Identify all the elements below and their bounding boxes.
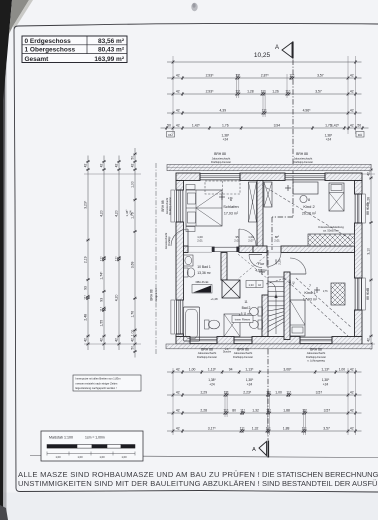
svg-text:17,93 m²: 17,93 m² [303,298,318,302]
footer text right [262,470,378,488]
page frame top edge [14,23,378,30]
section marker A top [275,42,293,59]
svg-text:Kind 2: Kind 2 [303,204,315,209]
svg-text:+24: +24 [247,383,253,387]
svg-text:3,23⁵: 3,23⁵ [84,200,88,209]
room label Kind 1 [303,284,318,302]
svg-text:42: 42 [131,164,135,168]
svg-text:1,28: 1,28 [247,89,254,93]
svg-text:6: 6 [230,198,232,202]
outer wall right (with window openings) [355,181,363,337]
section marker A bottom [252,441,268,458]
WC mid Bad 1 [205,320,220,329]
svg-text:BRH 88: BRH 88 [296,152,308,156]
svg-text:50: 50 [131,156,135,160]
svg-text:2,07: 2,07 [248,239,254,243]
window sill labels BRH left wall [150,197,172,302]
svg-text:4,96⁵: 4,96⁵ [303,108,312,112]
roof overhang dash-dot line left [155,163,157,355]
svg-text:Innenputze mit allen Breiten v: Innenputze mit allen Breiten von 1,83m [76,377,121,381]
svg-text:42: 42 [176,123,180,127]
desk and chair in Kind 2 [293,182,318,203]
svg-text:83,56 m²: 83,56 m² [98,38,125,45]
overall width dimension 10,25 [167,52,362,64]
door Kind 1 [290,258,306,274]
svg-text:50: 50 [131,346,135,350]
svg-text:3,57: 3,57 [316,390,323,394]
svg-text:1,38⁵: 1,38⁵ [322,378,330,382]
svg-text:Anlage in EU: Anlage in EU [155,288,158,302]
svg-text:1,32: 1,32 [252,408,259,412]
window sill labels BRH right wall [366,203,370,300]
svg-text:Eigenleistung nachgeputzt werd: Eigenleistung nachgeputzt werden ! [76,386,117,390]
svg-text:1,00: 1,00 [189,367,196,371]
svg-text:Kniestockverkleidung: Kniestockverkleidung [318,225,344,229]
svg-text:163,99 m²: 163,99 m² [94,56,124,63]
svg-text:Jalousieschacht: Jalousieschacht [212,157,231,161]
window bottom wall right [300,337,332,345]
door Bad 2 from Flur [249,255,262,268]
svg-text:2,01: 2,01 [234,239,240,243]
roof slope dashed lines crossing in Flur [238,254,268,279]
svg-text:11⁵: 11⁵ [286,390,292,394]
knee-wall cladding note [318,225,344,233]
svg-text:11: 11 [244,300,248,304]
svg-text:42: 42 [84,338,88,342]
svg-text:2,93⁵: 2,93⁵ [206,89,215,93]
bed in Kind 2 [329,183,344,211]
svg-text:50: 50 [357,123,361,127]
svg-text:Flur: Flur [258,262,265,266]
dashed wardrobe in Schlafen [205,181,240,194]
svg-text:1,88: 1,88 [283,426,290,430]
svg-text:3,57: 3,57 [315,89,322,93]
svg-text:11⁵: 11⁵ [285,89,291,93]
svg-text:42: 42 [176,367,180,371]
svg-text:3,57: 3,57 [324,408,331,412]
right dimension column [367,164,373,350]
svg-text:4,20: 4,20 [115,294,119,301]
svg-text:11⁵: 11⁵ [235,89,241,93]
window left wall upper [176,190,184,222]
knee-wall cladding band in Kind 2 [308,234,355,246]
top axis dimension row [161,123,369,130]
svg-text:42: 42 [176,73,180,77]
svg-text:+24: +24 [209,383,215,387]
scale box Massstab 1:100 [41,431,143,461]
bottom dimension row 2 [167,390,362,397]
svg-text:1,00: 1,00 [55,455,61,459]
svg-text:1,00: 1,00 [77,455,83,459]
innen Fliesen note box [232,316,253,323]
nightstands beside bed [186,185,195,232]
svg-text:11⁵: 11⁵ [224,390,230,394]
svg-text:Bad 2: Bad 2 [242,306,251,310]
level cross marks [219,185,328,293]
WC and bidet in Bad 2 [250,307,263,329]
svg-text:Kind 1: Kind 1 [304,290,316,295]
svg-text:A: A [252,447,256,453]
svg-text:Schlafen: Schlafen [223,204,239,209]
svg-text:11⁵: 11⁵ [289,73,295,77]
svg-text:42: 42 [350,426,354,430]
section line A-A dash-dot [268,60,293,441]
bed in Kind 1 [290,300,305,336]
svg-text:1,76: 1,76 [131,311,135,318]
svg-text:1,42⁵: 1,42⁵ [192,123,201,127]
svg-text:3,06⁵: 3,06⁵ [283,367,292,371]
installation shaft with X [222,280,240,298]
svg-text:1,00: 1,00 [275,390,282,394]
svg-text:innen Fliesen: innen Fliesen [235,317,251,321]
Bad 2 right wall [262,295,268,337]
svg-text:1,42⁵: 1,42⁵ [331,123,340,127]
svg-text:1,00: 1,00 [131,181,135,188]
door opening reveal lines [188,246,281,252]
svg-text:42: 42 [176,390,180,394]
svg-text:13,36 m²: 13,36 m² [197,271,211,275]
left dimension column 1 [84,156,90,351]
svg-text:93: 93 [100,298,104,302]
svg-text:BRH 88: BRH 88 [161,200,165,211]
svg-text:11⁵: 11⁵ [266,408,272,412]
svg-text:42: 42 [115,164,119,168]
svg-text:BRH 88: BRH 88 [310,347,322,351]
svg-text:42: 42 [350,123,354,127]
svg-text:80: 80 [232,408,236,412]
svg-text:1,32: 1,32 [252,426,259,430]
left dimension column 3 [115,156,121,351]
svg-text:3,94: 3,94 [274,123,281,127]
svg-text:42: 42 [350,108,354,112]
svg-text:11⁵: 11⁵ [84,294,88,300]
scan speck top middle [191,3,197,11]
svg-text:3,57: 3,57 [323,426,330,430]
svg-text:11⁵: 11⁵ [235,73,241,77]
svg-text:A: A [275,45,279,51]
floor-area table [22,36,127,63]
svg-text:11⁵: 11⁵ [115,256,119,262]
svg-text:Drehkipp-Fenster: Drehkipp-Fenster [197,355,217,359]
svg-text:4,20: 4,20 [100,210,104,217]
svg-text:BRH 88: BRH 88 [214,152,226,156]
svg-text:17,93 m²: 17,93 m² [224,212,239,216]
svg-text:1,13⁵: 1,13⁵ [208,367,217,371]
svg-text:10,25: 10,25 [254,52,271,59]
svg-text:4,39: 4,39 [219,108,226,112]
svg-text:42: 42 [176,89,180,93]
room label Flur [255,262,267,273]
svg-text:42: 42 [350,89,354,93]
WC in Bad 1 on left wall [184,268,195,277]
svg-text:DÜ: DÜ [168,133,172,137]
svg-text:2,76: 2,76 [323,291,328,293]
svg-text:Jalousieschacht: Jalousieschacht [307,351,326,355]
svg-text:42: 42 [291,281,295,285]
staircase treads [268,277,284,336]
svg-text:3,17⁵: 3,17⁵ [208,426,217,430]
svg-text:Drehkipp: Drehkipp [168,236,171,246]
svg-text:11⁵: 11⁵ [223,408,229,412]
staircase wall [284,272,290,340]
svg-text:Jalousieschacht: Jalousieschacht [166,197,169,214]
svg-text:1 Obergeschoss: 1 Obergeschoss [25,47,76,54]
svg-text:BRH 88: BRH 88 [366,203,370,215]
top dimension row 3 [167,108,362,115]
svg-text:DBA-Punkt: DBA-Punkt [196,280,209,284]
svg-text:Drehkipp-Fenster: Drehkipp-Fenster [306,355,326,359]
svg-text:n. Lüftungsweg: n. Lüftungsweg [307,358,325,362]
svg-text:11⁵: 11⁵ [266,426,272,430]
svg-text:2,26: 2,26 [277,259,281,265]
svg-text:50: 50 [167,123,171,127]
svg-text:Jalousieschacht: Jalousieschacht [294,157,313,161]
svg-text:+24: +24 [223,138,229,142]
window bottom wall left [190,337,217,345]
svg-text:0 Erdgeschoss: 0 Erdgeschoss [25,38,72,45]
svg-text:Drehkipp-Fenster: Drehkipp-Fenster [293,160,313,164]
svg-text:ALLE MASZE SIND ROHBAUMASZE UN: ALLE MASZE SIND ROHBAUMASZE UND AM BAU Z… [18,470,260,479]
room label Kind 2 [302,198,317,216]
outer wall bottom (with window openings) [176,337,362,345]
remark note box below left columns [73,375,141,391]
svg-text:2,29: 2,29 [200,390,207,394]
roof slope dashed lines in Kind 1 [284,278,352,336]
svg-text:8: 8 [308,198,310,202]
svg-text:1,00: 1,00 [131,330,135,337]
svg-text:Drehkipp-Fenster: Drehkipp-Fenster [233,355,253,359]
svg-text:2,01: 2,01 [197,239,203,243]
outer wall top (with window openings) [176,173,362,181]
dimension extension lines [84,56,375,435]
double bed in Schlafen [186,190,222,226]
svg-text:42: 42 [100,164,104,168]
corridor wall horizontal (with door openings) [184,246,355,253]
svg-text:11⁵: 11⁵ [100,306,104,312]
left axis dimension column [131,148,137,358]
svg-text:42: 42 [176,408,180,412]
svg-text:42: 42 [350,367,354,371]
scan artifact: gray folded page corner top-left [9,0,29,34]
svg-text:SIND BESTANDTEIL DER AUSFÜHRUN: SIND BESTANDTEIL DER AUSFÜHRUNG [262,479,378,488]
svg-text:1,38⁵: 1,38⁵ [246,378,254,382]
svg-text:1cm = 1,00m: 1cm = 1,00m [85,436,105,440]
svg-text:+24: +24 [326,138,332,142]
boxed label in Flur [246,281,263,288]
window top wall right [285,173,325,181]
svg-text:BRH 88: BRH 88 [366,288,370,300]
svg-text:1,76: 1,76 [222,123,229,127]
svg-text:Jalousieschacht: Jalousieschacht [234,351,253,355]
svg-text:1,26: 1,26 [272,89,279,93]
svg-text:+24: +24 [129,210,133,215]
door Bad 1 from Schlafen [171,229,188,246]
room label Schlafen [223,198,239,216]
svg-text:1,00: 1,00 [99,455,105,459]
svg-text:1,33: 1,33 [248,283,254,287]
svg-text:93: 93 [84,286,88,290]
door Kind 2 [267,253,281,267]
svg-text:1,00: 1,00 [339,367,346,371]
svg-text:11⁵: 11⁵ [261,89,267,93]
svg-text:messen entsteht nach einiger Z: messen entsteht nach einiger Zeiten [76,381,118,385]
scan artifact: dark blob bottom-left [0,505,8,520]
svg-text:ca. 50x50 cm: ca. 50x50 cm [323,229,340,233]
svg-text:2,01: 2,01 [274,239,280,243]
svg-text:UNSTIMMIGKEITEN SIND MIT DER B: UNSTIMMIGKEITEN SIND MIT DER BAULEITUNG … [18,479,260,488]
svg-text:42: 42 [115,338,119,342]
svg-text:Gesamt: Gesamt [25,56,50,63]
svg-text:+24: +24 [323,383,329,387]
svg-text:+1,48: +1,48 [210,297,218,301]
wardrobe with X beside central wall (Schlafen) [249,182,257,222]
desk with X in Kind 1 [331,283,345,305]
room label Bad 2 [241,300,252,316]
svg-text:2,28: 2,28 [200,408,207,412]
roof slope dashed line in Kind 2 [262,185,352,240]
window sill labels BRH top wall [211,152,313,164]
svg-text:Drehkipp-Fenster: Drehkipp-Fenster [211,160,231,164]
svg-text:3,69: 3,69 [131,261,135,268]
staircase walk line with arrow [266,278,286,334]
bottom axis sub-labels [208,378,330,387]
svg-text:1,88: 1,88 [283,408,290,412]
window outer reveal boxes right wall [362,194,366,310]
svg-text:2,87⁵: 2,87⁵ [261,73,270,77]
svg-text:42: 42 [367,338,371,342]
svg-text:BRH 88: BRH 88 [150,289,154,300]
svg-text:11⁵: 11⁵ [302,426,308,430]
window left wall lower [176,300,184,334]
svg-text:26,38 m²: 26,38 m² [302,212,317,216]
svg-text:80,43 m²: 80,43 m² [98,47,125,54]
svg-text:DÜ: DÜ [358,133,362,137]
inner boundary line above footer text [30,456,378,458]
bathtub in Bad 1 [184,307,200,341]
left dimension column 2 [100,156,106,351]
svg-text:42: 42 [84,164,88,168]
svg-text:BRH 86: BRH 86 [237,347,249,351]
black wedge marker in Bad 1 [192,280,212,293]
footer warning text left [18,470,260,488]
roof overhang band above top wall [167,165,371,171]
svg-text:10 Bad 1: 10 Bad 1 [197,265,211,269]
svg-text:11⁵: 11⁵ [266,390,272,394]
svg-text:2,19: 2,19 [84,256,88,263]
top dimension row 2 [167,89,362,96]
svg-text:7: 7 [309,284,311,288]
svg-text:11⁵: 11⁵ [262,108,268,112]
svg-text:42: 42 [176,108,180,112]
bottom dimension row 4 [167,426,362,433]
svg-text:11⁵: 11⁵ [100,256,104,262]
svg-text:42: 42 [131,338,135,342]
window sill labels BRH bottom wall [197,347,326,362]
svg-text:11⁵: 11⁵ [302,408,308,412]
room label Bad 1 [197,265,211,275]
svg-text:1,13⁵: 1,13⁵ [321,367,330,371]
svg-text:4,20: 4,20 [115,210,119,217]
svg-text:Jalousieschacht: Jalousieschacht [165,232,168,249]
svg-text:4,58 m²: 4,58 m² [255,269,267,273]
svg-text:1,74⁵: 1,74⁵ [100,271,104,280]
svg-text:Jalousieschacht: Jalousieschacht [198,351,217,355]
scan artifact: slightly darker band below page frame [0,493,378,520]
window right wall upper [355,194,363,223]
bottom dimension row 3 [167,408,362,415]
window right wall lower [355,278,363,310]
door Schlafen (swing into room) [239,229,256,246]
svg-text:42: 42 [350,73,354,77]
svg-text:42: 42 [350,390,354,394]
shower in Bad 1/2 [224,314,240,337]
svg-text:2,93⁵: 2,93⁵ [206,73,215,77]
top dimension row 1 [167,73,362,80]
svg-text:3,57: 3,57 [317,73,324,77]
door lintel / closed door panel in corridor wall [212,247,239,252]
svg-text:42: 42 [176,426,180,430]
svg-text:Maßstab 1:100: Maßstab 1:100 [49,436,73,440]
window bottom wall middle [234,337,252,345]
bottom axis dimension row [167,367,362,374]
bathroom wall vertical [221,253,227,281]
window outer reveal boxes left wall [171,190,175,334]
small interior dimension texts near corridor [197,235,295,301]
svg-text:DIE STATISCHEN BERECHNUNGEN: DIE STATISCHEN BERECHNUNGEN [262,470,378,479]
svg-text:1,55: 1,55 [100,320,104,327]
window top wall left [200,173,240,181]
washbasin in Bad 1 on left wall [184,255,194,266]
svg-text:2,48: 2,48 [84,314,88,321]
svg-text:1,00: 1,00 [121,455,127,459]
svg-text:BRH 88: BRH 88 [201,347,213,351]
svg-text:1,13⁵: 1,13⁵ [245,367,254,371]
svg-text:42: 42 [100,338,104,342]
svg-text:42: 42 [350,408,354,412]
scan artifact: black left edge band [0,0,12,520]
svg-text:94: 94 [229,367,233,371]
svg-text:11⁵: 11⁵ [240,426,246,430]
outer wall left (with window openings) [176,181,184,337]
roof overhang band below bottom wall [166,344,372,349]
svg-text:2,23⁵: 2,23⁵ [243,390,252,394]
svg-text:3,10: 3,10 [367,248,371,255]
svg-text:11⁵: 11⁵ [240,408,246,412]
interior wall between Schlafen and Kind 2 [257,181,263,247]
svg-text:Dusche: Dusche [223,351,232,354]
axis row end labels 50 and DUe boxes [167,123,365,141]
svg-text:1,38⁵: 1,38⁵ [208,378,216,382]
wardrobe with X in Kind 2 [264,182,272,207]
left axis column extra labels [125,209,133,217]
svg-text:Drehkipp-Fenster: Drehkipp-Fenster [169,197,172,215]
